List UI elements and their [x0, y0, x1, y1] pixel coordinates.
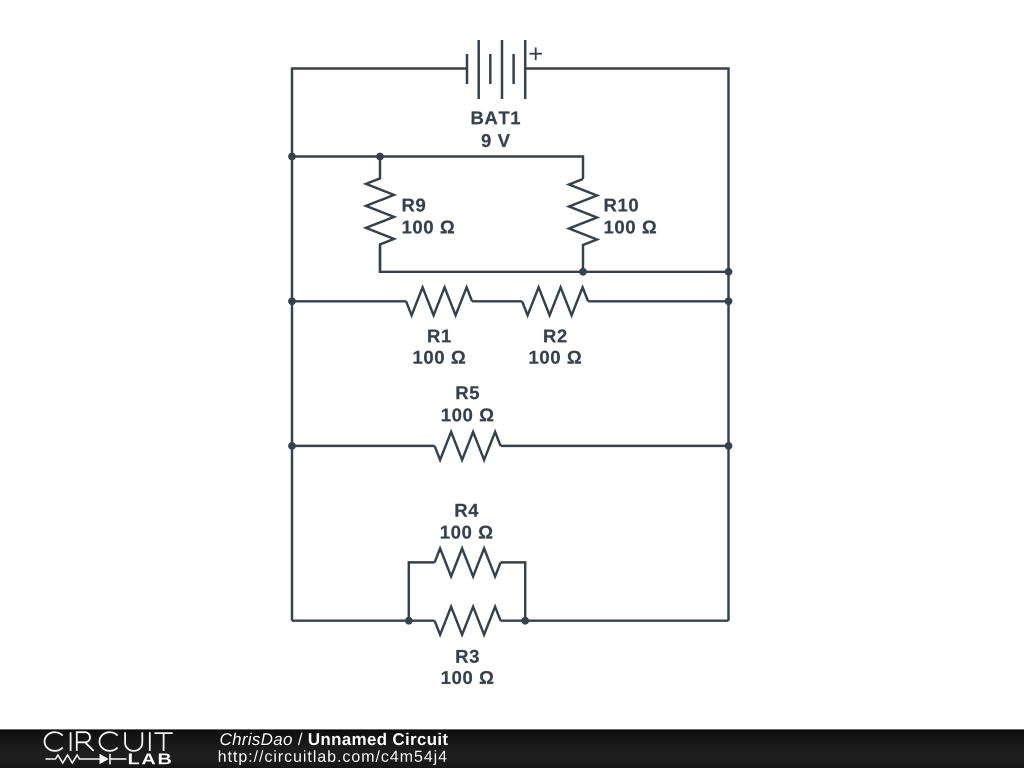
label R1 value	[414, 351, 465, 364]
resistor R10	[569, 179, 597, 272]
resistor R1	[406, 287, 472, 315]
battery BAT1 plates	[467, 40, 525, 99]
node junction R4 branch right	[521, 617, 529, 625]
label R5 value	[442, 408, 493, 421]
node junction R10 bottom	[579, 268, 587, 276]
label R9 name	[403, 199, 425, 212]
label R1 name	[428, 330, 451, 343]
wire R9/R10 bottom rail	[380, 245, 729, 272]
logo letter I	[149, 732, 151, 751]
label BAT1 name	[472, 112, 520, 125]
node junction left rail R1 row	[288, 297, 296, 305]
wire left rail	[291, 157, 293, 621]
resistor R5	[435, 432, 501, 460]
node junction right rail R5 row	[725, 442, 733, 450]
footer title ChrisDao / Unnamed Circuit	[220, 733, 447, 746]
label R5 name	[457, 386, 480, 399]
wire R4 branch left	[409, 562, 435, 620]
wire top left from left rail to battery	[292, 69, 467, 157]
battery plus sign	[530, 47, 543, 60]
logo letter C	[99, 732, 117, 751]
node junction right rail R9R10 bottom	[725, 268, 733, 276]
label R2 value	[530, 351, 581, 364]
wire bottom row left	[292, 619, 435, 621]
label R10 value	[605, 221, 656, 234]
node junction R9 top	[376, 153, 384, 161]
resistor R2	[522, 287, 588, 315]
label R10 name	[605, 199, 638, 212]
wire R1/R2 row left	[292, 300, 406, 302]
label R3 name	[456, 650, 478, 663]
logo diode triangle	[100, 754, 109, 765]
wire bottom row right	[501, 619, 729, 621]
logo letter C	[45, 732, 63, 751]
label R9 value	[403, 221, 454, 234]
resistor R4	[435, 548, 501, 576]
label R2 name	[544, 329, 566, 342]
footer url	[219, 750, 447, 765]
logo word LAB	[129, 754, 171, 765]
node junction left rail R5 row	[288, 442, 296, 450]
label R3 value	[442, 671, 493, 684]
wire R9/R10 top rail	[292, 157, 583, 180]
label BAT1 value 9 V	[482, 134, 510, 147]
label R4 name	[456, 504, 479, 517]
wire R4 branch right	[501, 562, 526, 620]
node junction left rail R9 row	[288, 153, 296, 161]
logo resistor-diode glyph	[46, 754, 127, 765]
node junction R4 branch left	[405, 617, 413, 625]
wire R5 row right	[501, 445, 729, 447]
wire top right from battery to right rail	[525, 69, 729, 272]
wire between R1 and R2	[472, 300, 522, 302]
resistor R3	[435, 607, 501, 635]
CircuitLab logo word CIRCUIT	[45, 732, 173, 751]
footer bar	[0, 729, 1024, 768]
wire R1/R2 row right	[588, 300, 728, 302]
resistor R9	[366, 157, 394, 272]
wire R5 row left	[292, 445, 435, 447]
logo letter U	[125, 732, 142, 751]
label R4 value	[441, 526, 492, 539]
wire right rail	[727, 272, 729, 621]
logo letter R	[77, 732, 94, 751]
logo letter T	[155, 733, 173, 751]
logo letter I	[70, 732, 72, 751]
node junction right rail R2 row	[725, 297, 733, 305]
